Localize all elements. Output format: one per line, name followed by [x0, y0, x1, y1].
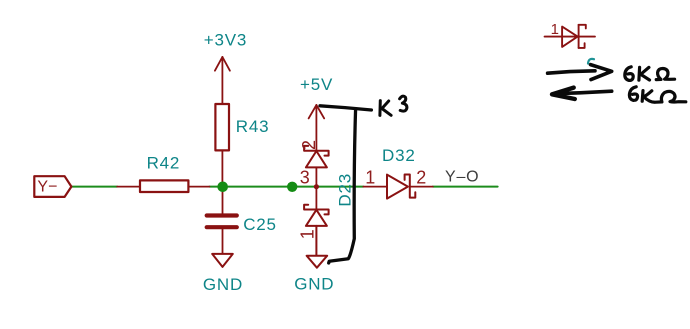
- svg-text:R42: R42: [147, 153, 181, 172]
- svg-text:GND: GND: [294, 275, 334, 294]
- svg-text:R43: R43: [236, 117, 270, 136]
- handwritten left arrow: [552, 88, 612, 99]
- sketch diode copy (top right): [545, 25, 595, 48]
- svg-text:D23: D23: [336, 173, 355, 207]
- resistor R42: [117, 180, 209, 192]
- svg-text:+3V3: +3V3: [204, 31, 247, 50]
- power +5V: [309, 105, 325, 151]
- svg-text:3: 3: [300, 167, 310, 187]
- svg-text:1: 1: [365, 167, 375, 187]
- svg-text:GND: GND: [203, 275, 243, 294]
- diode D32 (schottky): [363, 175, 432, 199]
- power +3V3: [215, 57, 230, 104]
- resistor R43: [215, 104, 229, 187]
- capacitor C25: [207, 187, 237, 254]
- ground GND right: [307, 256, 328, 268]
- diode D23 lower (zener to GND): [304, 205, 329, 256]
- svg-text:Y−: Y−: [37, 179, 57, 196]
- wire Y- to R42: [72, 186, 118, 188]
- svg-text:D32: D32: [382, 146, 416, 165]
- svg-text:Y–O: Y–O: [445, 169, 479, 186]
- svg-text:C25: C25: [243, 215, 277, 234]
- pin3 connection dot: [314, 184, 319, 189]
- annotation K3: [380, 96, 407, 115]
- wire center of D23: [315, 167, 317, 209]
- teal mark: [588, 59, 594, 64]
- ground GND left: [212, 254, 233, 267]
- junction node A: [217, 182, 228, 193]
- handwritten 6KOhm 1: [625, 67, 675, 81]
- handwritten brace K3: [320, 106, 371, 263]
- svg-text:2: 2: [299, 140, 319, 150]
- svg-text:1: 1: [551, 21, 559, 38]
- node green dot pin3: [287, 182, 297, 192]
- wire junction to D23 node to D32: [209, 186, 363, 188]
- handwritten 6KOhm 2: [629, 87, 685, 102]
- hierarchical label Y-: [34, 176, 71, 197]
- svg-text:+5V: +5V: [300, 75, 333, 94]
- wire D32 to Y-O: [433, 186, 498, 188]
- handwritten right arrow: [548, 65, 612, 80]
- svg-text:2: 2: [416, 167, 426, 187]
- svg-text:1: 1: [298, 229, 318, 239]
- diode D23 upper (zener to +5V): [304, 146, 329, 168]
